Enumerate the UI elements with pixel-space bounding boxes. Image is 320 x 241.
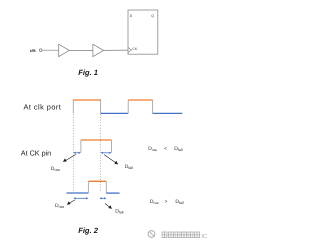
wave3 D_fall delay arrow (100, 197, 107, 199)
wave2 falling edge (111, 140, 113, 153)
wave2 high (81, 139, 112, 141)
wire buffer1 to buffer2 (69, 49, 93, 51)
svg-text:IC: IC (201, 233, 208, 240)
wave1 falling edge 1 (100, 100, 102, 114)
svg-text:CK: CK (132, 47, 137, 51)
svg-text:Drise: Drise (150, 199, 159, 205)
wave3 low right (106, 192, 119, 194)
wave1 rising edge 2 (127, 100, 129, 113)
annotation arrow to D_fall (wave3) (105, 204, 112, 209)
clock wedge (128, 47, 132, 52)
wave2 D_rise delay arrow (73, 152, 80, 154)
svg-text:Dfall: Dfall (174, 146, 182, 152)
buffer U1 (59, 44, 70, 56)
svg-text:At clk port: At clk port (24, 103, 62, 112)
svg-text:Fig. 1: Fig. 1 (78, 68, 98, 77)
svg-text:Q: Q (151, 14, 154, 18)
dashed reference line at clk rise (72, 114, 74, 192)
clk port circle (39, 49, 42, 52)
annotation arrow to D_fall (wave2) (104, 155, 118, 165)
svg-text:Drise: Drise (51, 166, 60, 172)
svg-text:Dfall: Dfall (125, 164, 133, 170)
wave1 low 2 (153, 112, 183, 114)
wave3 high (88, 180, 106, 182)
svg-text:Drise: Drise (55, 203, 64, 209)
svg-text:<: < (164, 146, 167, 152)
svg-text:>: > (165, 199, 168, 205)
wave1 falling edge 2 (152, 100, 154, 113)
svg-text:Dfall: Dfall (175, 199, 183, 205)
wire clk to buffer 1 (42, 49, 59, 51)
svg-text:clk: clk (30, 48, 36, 53)
wave1 high 2 (128, 99, 152, 101)
annotation arrow to D_rise (wave3) (67, 200, 75, 205)
wave3 D_rise delay arrow (73, 197, 88, 199)
watermark logo (148, 231, 208, 240)
wave2 D_fall delay arrow (101, 152, 112, 154)
dashed reference line at clk fall (100, 114, 102, 192)
wave1 high 1 (73, 99, 101, 101)
wave2 rising edge (80, 140, 82, 153)
svg-text:Drise: Drise (148, 146, 157, 152)
flip-flop U3 box (128, 10, 158, 54)
wave3 rising edge (87, 181, 89, 193)
wave3 falling edge (105, 181, 107, 193)
wave1 rising edge 1 (72, 100, 74, 114)
buffer U2 (93, 44, 104, 56)
svg-text:Fig. 2: Fig. 2 (78, 226, 99, 235)
wave3 low left (66, 192, 88, 194)
annotation arrow to D_rise (wave2) (63, 154, 76, 162)
wave1 low 1 (101, 112, 129, 114)
svg-text:At CK pin: At CK pin (21, 148, 51, 157)
svg-text:Dfall: Dfall (115, 209, 123, 215)
svg-text:D: D (130, 14, 133, 18)
wire buffer2 to flip-flop CK (104, 49, 129, 51)
